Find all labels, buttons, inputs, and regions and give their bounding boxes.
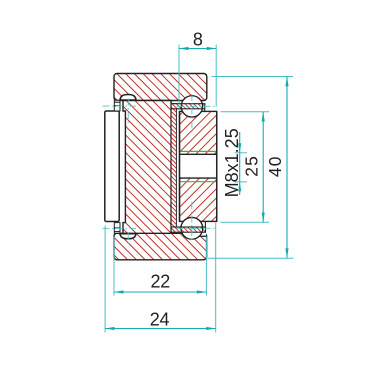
svg-text:8: 8 — [193, 29, 203, 49]
svg-text:M8x1.25: M8x1.25 — [222, 128, 242, 197]
svg-text:40: 40 — [265, 155, 285, 177]
svg-text:22: 22 — [150, 271, 170, 291]
svg-text:25: 25 — [242, 155, 262, 177]
svg-text:24: 24 — [150, 310, 170, 330]
